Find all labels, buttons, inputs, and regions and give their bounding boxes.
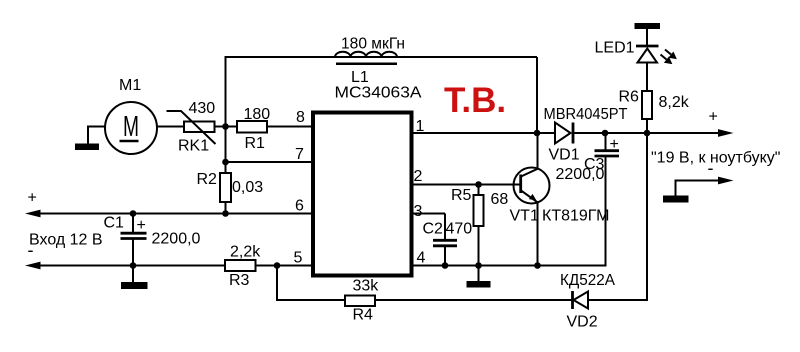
wire bar to LED [646, 29, 648, 46]
wire left bus top rail [226, 57, 538, 127]
svg-text:M1: M1 [119, 77, 141, 94]
LED arrow 1 [665, 50, 676, 59]
wire R3 to pin 5 [256, 265, 314, 267]
svg-text:КД522А: КД522А [560, 272, 615, 289]
svg-text:VT1: VT1 [510, 208, 539, 225]
wire R1 to pin 8 [267, 126, 313, 128]
svg-text:C2: C2 [423, 221, 444, 238]
wire pin 7 [226, 161, 314, 163]
node pin2/R5 [475, 181, 482, 188]
node emitter [534, 262, 541, 269]
svg-text:5: 5 [294, 250, 303, 267]
wire R6 to rail [646, 119, 648, 133]
input plus arrow [25, 210, 41, 218]
output plus arrow [718, 129, 734, 137]
svg-text:-: - [708, 158, 714, 178]
wire input plus / pin 6 [38, 213, 313, 215]
svg-text:R3: R3 [229, 272, 250, 289]
wire motor to RK1 [157, 126, 184, 128]
power bar (12V rail top) [635, 23, 661, 29]
ground (pin4 net) [467, 266, 491, 288]
node C1 top [130, 210, 137, 217]
capacitor C2 [423, 214, 473, 266]
svg-text:2,2k: 2,2k [230, 244, 261, 261]
svg-text:7: 7 [295, 146, 304, 163]
svg-text:VD1: VD1 [549, 147, 580, 164]
node R3/R4/pin5 [274, 262, 281, 269]
svg-text:33k: 33k [353, 278, 380, 295]
svg-text:470: 470 [446, 221, 473, 238]
wire right rail down to pin 1 [536, 57, 538, 133]
svg-text:-: - [28, 240, 34, 260]
svg-text:+: + [709, 109, 718, 126]
svg-text:МС34063А: МС34063А [335, 85, 422, 102]
capacitor C3 [556, 133, 620, 266]
svg-text:C1: C1 [104, 215, 125, 232]
LED arrow 2 [661, 55, 672, 64]
svg-text:68: 68 [491, 191, 509, 208]
resistor R3 [225, 244, 261, 290]
wire node down to R4 [277, 266, 345, 301]
svg-text:2200,0: 2200,0 [152, 231, 201, 248]
svg-text:R4: R4 [353, 307, 374, 324]
node R5 bottom / ground [475, 262, 482, 269]
svg-text:+: + [137, 217, 146, 234]
svg-text:180 мкГн: 180 мкГн [341, 36, 405, 53]
transistor VT1 [510, 168, 610, 225]
wire input minus to R3 [38, 265, 225, 267]
wire pin 2 [412, 184, 521, 186]
svg-text:8,2k: 8,2k [659, 94, 690, 111]
svg-text:Вход 12 В: Вход 12 В [29, 232, 103, 249]
wire emitter down [537, 202, 539, 265]
diode VD1 [544, 106, 628, 164]
wire bus pin7 to R2 [225, 127, 227, 174]
wire pin 1 [412, 132, 556, 134]
wire pin 3 [412, 213, 446, 215]
node RK1/R1 [222, 123, 229, 130]
thermistor RK1 [167, 100, 216, 155]
svg-text:+: + [28, 190, 37, 207]
inductor L1 [335, 36, 405, 87]
svg-text:L1: L1 [351, 69, 369, 86]
motor M1 [105, 77, 157, 154]
wire VD2 up to output rail [588, 133, 647, 300]
svg-text:R6: R6 [619, 89, 640, 106]
svg-text:RK1: RK1 [178, 138, 209, 155]
wire R2 to pin6 line [225, 202, 227, 214]
wire RK1 to node [215, 126, 238, 128]
svg-text:LED1: LED1 [595, 40, 635, 57]
svg-text:VD2: VD2 [567, 314, 598, 331]
input minus arrow [25, 262, 41, 270]
resistor R6 [619, 89, 690, 120]
node C2 bottom [442, 262, 449, 269]
svg-text:КТ819ГМ: КТ819ГМ [542, 208, 609, 225]
ground (C1) [121, 282, 148, 289]
wire VD1 to output arrow [573, 132, 720, 134]
node C3 top [602, 130, 609, 137]
svg-text:MBR4045PT: MBR4045PT [544, 106, 628, 123]
wire pin 4 [412, 265, 607, 267]
svg-text:8: 8 [296, 109, 305, 126]
svg-text:M: M [123, 111, 139, 143]
svg-text:3: 3 [414, 203, 423, 220]
svg-text:2: 2 [414, 168, 423, 185]
svg-text:R2: R2 [197, 171, 218, 188]
svg-text:R1: R1 [245, 135, 266, 152]
capacitor C1 [104, 214, 201, 283]
output minus terminal [663, 177, 734, 203]
node R6/VD2 [644, 130, 651, 137]
diode VD2 [560, 272, 615, 331]
node C1 bottom [130, 262, 137, 269]
node pin1/L1/VD1/collector [534, 130, 541, 137]
resistor R2 [197, 171, 264, 202]
svg-text:0,03: 0,03 [232, 179, 263, 196]
ground (motor) [75, 127, 105, 151]
node R2/pin6 [222, 210, 229, 217]
svg-text:Т.В.: Т.В. [444, 81, 506, 120]
resistor R5 [451, 185, 508, 266]
node pin7 [222, 159, 229, 166]
svg-text:180: 180 [244, 106, 271, 123]
resistor R4 [345, 278, 379, 324]
svg-text:"19 В, к ноутбуку": "19 В, к ноутбуку" [651, 150, 780, 167]
svg-text:+: + [610, 136, 619, 153]
wire R4 to VD2 [375, 299, 573, 301]
svg-text:6: 6 [295, 198, 304, 215]
svg-text:430: 430 [189, 100, 216, 117]
resistor R1 [237, 106, 270, 152]
LED LED1 [595, 40, 659, 92]
IC U1 MC34063A [313, 85, 422, 276]
svg-text:2200,0: 2200,0 [556, 166, 605, 183]
wire collector up [537, 133, 539, 169]
svg-text:R5: R5 [451, 187, 472, 204]
svg-text:4: 4 [417, 250, 426, 267]
